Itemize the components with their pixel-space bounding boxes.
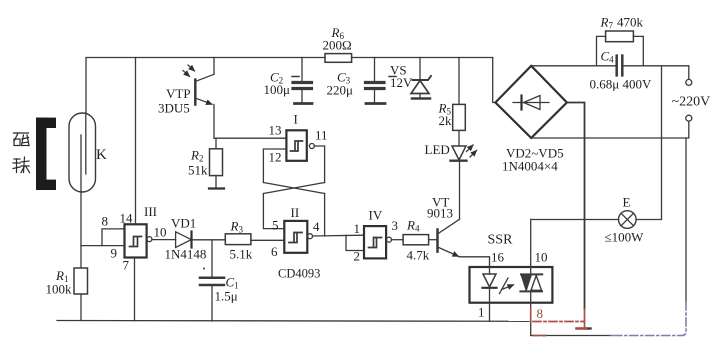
- DC- termination bar: [585, 327, 591, 329]
- svg-text:~220V: ~220V: [672, 95, 711, 110]
- diode VD1 1N4148: [176, 232, 192, 248]
- reed switch K glass envelope: [69, 113, 96, 192]
- phototransistor VTP 3DU5: [213, 58, 215, 75]
- svg-text:5: 5: [272, 218, 279, 233]
- LED: [452, 146, 466, 160]
- wire: cross down to gate II pin 5: [263, 194, 284, 229]
- svg-text:I: I: [294, 112, 298, 127]
- wire: emitter node to gate I pin 13: [214, 137, 286, 139]
- svg-text:≤100W: ≤100W: [605, 230, 645, 245]
- svg-text:K: K: [96, 147, 107, 163]
- wire: lamp right to AC live: [636, 66, 661, 220]
- wire: lamp left to SSR pin 10: [531, 219, 619, 221]
- svg-text:51k: 51k: [188, 163, 208, 178]
- wire: bottom ground rail: [57, 320, 529, 323]
- wire: gate III out to VD1: [152, 239, 176, 241]
- gate IV: [364, 226, 386, 258]
- label: 铁 (drawn glyph): [13, 157, 30, 173]
- svg-text:100k: 100k: [46, 282, 73, 297]
- resistor R7: [606, 31, 634, 42]
- wire: top +12V rail right segment: [352, 57, 493, 59]
- wire: gate I output down to cross: [314, 146, 324, 183]
- svg-text:6: 6: [271, 244, 278, 259]
- SSR box: [470, 267, 553, 303]
- svg-text:8: 8: [537, 306, 544, 321]
- svg-text:11: 11: [315, 128, 328, 143]
- svg-text:E: E: [623, 195, 631, 210]
- zener diode VS 12V: [419, 58, 421, 81]
- svg-text:8: 8: [102, 214, 109, 229]
- wire: gate IV pin 2 jog: [346, 235, 364, 250]
- wire: bridge bottom vertex to AC terminal: [531, 121, 689, 138]
- svg-text:1N4004×4: 1N4004×4: [502, 159, 558, 174]
- wire: bridge right vertex DC- down: [567, 103, 585, 310]
- capacitor C1: [211, 240, 213, 277]
- svg-text:3DU5: 3DU5: [158, 101, 190, 116]
- LED flash arrows: [467, 145, 474, 152]
- svg-text:16: 16: [491, 250, 505, 265]
- svg-text:SSR: SSR: [488, 233, 514, 248]
- blue annotation: AC return path: [611, 302, 687, 336]
- AC terminals ~220V: [688, 66, 690, 80]
- gate I: [286, 130, 306, 161]
- capacitor C2: [301, 58, 303, 81]
- svg-text:12: 12: [269, 150, 282, 165]
- resistor R5: [458, 58, 460, 105]
- wire: pin 7 VSS: [134, 258, 136, 321]
- SSR internal LED: [489, 267, 491, 274]
- wire: gate I pin 12 left to cross: [263, 149, 286, 183]
- resistor R4: [392, 239, 404, 241]
- svg-text:0.68μ 400V: 0.68μ 400V: [590, 77, 652, 92]
- svg-text:VD1: VD1: [171, 216, 196, 231]
- light arrows into VTP: [183, 71, 190, 77]
- gate III (CD4093 1/4): [125, 224, 147, 257]
- svg-text:9013: 9013: [427, 206, 453, 221]
- wire: AC neutral vertical (black part): [685, 138, 687, 302]
- svg-text:200Ω: 200Ω: [323, 38, 352, 53]
- transistor VT 9013: [436, 230, 439, 252]
- svg-text:IV: IV: [369, 208, 383, 223]
- svg-text:2: 2: [354, 249, 361, 264]
- svg-text:470k: 470k: [617, 15, 644, 30]
- resistor R2: [215, 138, 217, 149]
- wire: bottom AC return (black part): [531, 335, 612, 337]
- wire: LED chain down to VT collector: [459, 161, 461, 219]
- svg-text:II: II: [291, 205, 300, 220]
- svg-text:1N4148: 1N4148: [165, 247, 207, 262]
- wire: top +12V rail left segment: [86, 58, 325, 115]
- red annotation: pin 8 to DC- path: [531, 308, 586, 336]
- wire: cross down to gate II output: [324, 194, 326, 237]
- SSR flash arrow: [500, 278, 509, 294]
- magnet (black bracket): [36, 118, 56, 190]
- svg-text:1: 1: [478, 305, 485, 320]
- svg-text:III: III: [144, 204, 157, 219]
- wire: cross-coupling X: [263, 183, 324, 194]
- wire: pin 14 VDD: [135, 58, 137, 225]
- wire: SSR pin 8 down: [530, 303, 532, 310]
- svg-text:100μ: 100μ: [264, 82, 291, 97]
- wire: gate II out to gate IV pin 1: [313, 234, 365, 237]
- capacitor C3: [374, 58, 376, 81]
- wire: bridge top vertex to C4: [531, 65, 616, 67]
- label: 磁 (drawn glyph): [14, 133, 30, 146]
- svg-text:1: 1: [354, 221, 361, 236]
- resistor R6: [325, 54, 352, 63]
- wire: VD1 to R3 with C1 node: [192, 239, 226, 241]
- reed switch contacts: [85, 113, 87, 174]
- svg-text:LED: LED: [425, 142, 450, 157]
- svg-text:9: 9: [111, 246, 118, 261]
- svg-text:3: 3: [392, 218, 399, 233]
- svg-text:13: 13: [269, 123, 282, 138]
- svg-text:10: 10: [154, 225, 167, 240]
- svg-text:7: 7: [123, 258, 130, 273]
- wire: emitter to SSR pin 16: [459, 257, 490, 267]
- svg-text:14: 14: [120, 211, 134, 226]
- svg-text:1.5μ: 1.5μ: [215, 289, 238, 304]
- wire: pin 8 jog: [102, 229, 125, 246]
- resistor R3: [225, 234, 251, 245]
- svg-text:12V: 12V: [390, 75, 413, 90]
- svg-text:VTP: VTP: [166, 86, 191, 101]
- svg-text:10: 10: [535, 250, 548, 265]
- resistor R1: [74, 268, 88, 294]
- gate II: [284, 221, 307, 253]
- bridge rectifier VD2-VD5: [493, 58, 496, 103]
- SSR internal triac: [530, 267, 532, 274]
- wire: reed switch to R1 junction: [80, 192, 82, 268]
- svg-text:CD4093: CD4093: [278, 267, 320, 281]
- lamp E: [619, 211, 637, 229]
- wire: junction to gate III inputs: [81, 245, 125, 247]
- svg-text:2k: 2k: [439, 113, 453, 128]
- svg-text:4.7k: 4.7k: [407, 248, 430, 263]
- wire: SSR pin 1 to ground rail: [489, 303, 491, 322]
- capacitor C4: [615, 56, 618, 76]
- svg-text:4: 4: [313, 219, 320, 234]
- svg-text:220μ: 220μ: [327, 83, 354, 98]
- svg-text:5.1k: 5.1k: [230, 247, 253, 262]
- wire: R3 to gate II pin 6: [251, 239, 284, 241]
